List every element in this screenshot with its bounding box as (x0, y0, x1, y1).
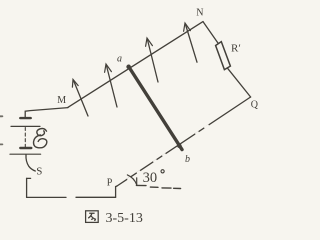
battery dashed link (more cells) (24, 128, 26, 148)
svg-text:P: P (107, 178, 113, 189)
field arrow 3 shaft (147, 39, 158, 82)
field arrow 1 shaft (74, 81, 88, 116)
caption CJK char tu (figure) (86, 211, 99, 223)
svg-text:S: S (36, 166, 42, 178)
battery cell 2 long plate (10, 153, 41, 155)
dashed horizontal reference line (136, 185, 180, 188)
field arrow 4 head (184, 23, 191, 31)
battery cell 1 short plate (20, 117, 30, 119)
svg-text:N: N (196, 8, 203, 19)
junction node b on rail QP (177, 144, 182, 149)
EMF symbol script-E (34, 129, 47, 148)
resistor R' body (216, 42, 231, 70)
left edge scan mark 1 (0, 115, 2, 117)
wire: resistor R' bottom lead to Q corner (228, 68, 251, 97)
field arrow 4 shaft (186, 25, 198, 63)
field arrow 2 head (105, 64, 112, 72)
svg-text:3-5-13: 3-5-13 (106, 211, 143, 226)
switch bottom contact tick (27, 177, 31, 179)
bottom wire left segment (27, 196, 66, 198)
angle arc at P (127, 175, 136, 185)
wire: switch contact down left side (26, 178, 28, 197)
rail QP (117, 97, 251, 186)
field arrow 3 head (146, 38, 153, 46)
wire: rail M corner to left vertical drop (25, 108, 68, 118)
svg-text:R′: R′ (231, 43, 241, 55)
field arrow 2 shaft (106, 65, 117, 107)
svg-text:30: 30 (143, 170, 158, 186)
svg-text:b: b (185, 154, 190, 165)
rod ab (conducting bar) (129, 67, 182, 150)
junction node a on rail MN (126, 65, 131, 70)
left edge scan mark 2 (0, 143, 2, 145)
switch S lever (26, 155, 35, 171)
bottom wire right segment (76, 196, 116, 198)
rail MN (68, 22, 203, 108)
battery cell 1 long plate (11, 125, 40, 127)
field arrow 1 head (72, 79, 78, 87)
battery cell 2 short plate (20, 147, 31, 149)
wire: riser from bottom wire up to P corner (116, 186, 117, 197)
wire: N corner down to resistor R' top lead (203, 22, 218, 44)
svg-text:Q: Q (251, 100, 259, 111)
rail QP scan gaps (128, 126, 208, 180)
svg-text:M: M (57, 95, 66, 106)
svg-text:a: a (117, 54, 122, 65)
angle tick mark (136, 178, 138, 185)
